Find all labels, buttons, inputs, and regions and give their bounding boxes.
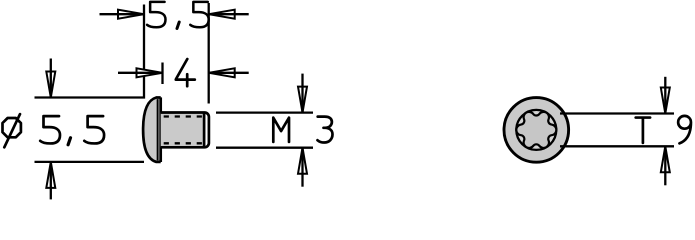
dim 4 tick	[161, 63, 163, 85]
text 3	[318, 117, 333, 143]
head dia bottom arrow	[46, 162, 55, 188]
text 5,5 left	[40, 116, 60, 143]
text 9	[678, 116, 691, 144]
head outer circle	[504, 98, 569, 163]
shank chamfer line	[203, 113, 206, 148]
text 4	[176, 59, 195, 86]
T9 bottom arrow	[661, 146, 670, 172]
head sphere tangent line	[157, 99, 159, 160]
shank end cap	[204, 112, 209, 147]
dim 4 left arrow	[137, 68, 163, 77]
torx recess star	[516, 112, 556, 148]
head face line	[159, 97, 162, 162]
M3 extension line bottom	[216, 147, 313, 149]
shank outline	[161, 112, 209, 147]
T9 extension line top	[560, 112, 674, 114]
threaded shank body	[161, 113, 204, 148]
socket inner circle	[516, 110, 556, 150]
text diameter sign	[3, 114, 21, 147]
dim 4 right arrow	[209, 68, 235, 77]
M3 bottom arrow	[298, 148, 307, 174]
extension line right (x=208.2)	[208, 3, 210, 104]
text T	[636, 118, 650, 143]
head dia extension line bottom	[35, 161, 145, 163]
dim 5,5 left arrow	[118, 10, 144, 19]
extension line left (x=143.5)	[35, 5, 145, 98]
head dia top arrow	[46, 72, 55, 98]
text 5,5 top	[147, 2, 165, 27]
M3 top arrow	[298, 87, 307, 113]
M3 extension line top	[216, 111, 313, 113]
thread dashed line top	[164, 115, 204, 117]
text M	[273, 118, 289, 142]
dim 5,5 right arrow	[209, 10, 235, 19]
thread dashed line bottom	[164, 142, 204, 144]
T9 top arrow	[661, 88, 670, 114]
screw head (side view, button head)	[143, 98, 161, 162]
T9 extension line bottom	[560, 145, 674, 147]
